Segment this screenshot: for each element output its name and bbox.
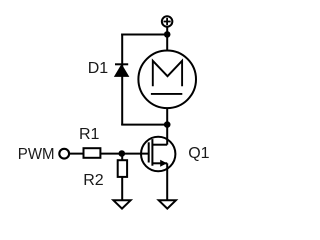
resistor R2 [118, 160, 127, 177]
transistor Q1 drain lead [152, 144, 167, 146]
motor M glyph [153, 61, 182, 86]
terminal PWM [59, 149, 69, 159]
wire: junction down to R2 [121, 154, 123, 161]
diode D1 (cathode bar) [115, 63, 128, 65]
transistor Q1 source arrow [160, 160, 167, 167]
transistor Q1 channel bar [151, 139, 153, 166]
transistor Q1 source lead [152, 162, 167, 164]
wire: source down to ground [166, 163, 168, 200]
wire: diode branch bottom horizontal [121, 124, 167, 126]
ground (below R2) [113, 200, 130, 208]
motor underline [151, 93, 182, 95]
svg-text:Q1: Q1 [188, 145, 209, 162]
svg-text:PWM: PWM [18, 146, 55, 163]
wire: top horizontal to diode branch [121, 34, 167, 36]
power supply (+) terminal [162, 16, 173, 27]
resistor R1 [84, 148, 101, 158]
motor M1 (circle) [138, 51, 196, 109]
node: drain junction [164, 121, 171, 128]
transistor Q1 gate bar [148, 142, 150, 162]
diode D1 (anode triangle) [115, 65, 128, 76]
svg-text:D1: D1 [88, 60, 109, 77]
wire: supply down to motor top [166, 27, 168, 50]
wire: R2 to ground [121, 178, 123, 201]
wire: diode branch vertical [121, 34, 123, 126]
wire: gate net from PWM terminal to MOSFET gate [70, 153, 149, 155]
wire: motor bottom through junction to MOSFET drain [166, 108, 168, 145]
transistor Q1 (body circle) [141, 137, 175, 171]
node: supply junction [164, 31, 171, 38]
svg-text:R2: R2 [83, 172, 104, 189]
node: gate junction [119, 150, 126, 157]
svg-text:R1: R1 [79, 126, 100, 143]
ground (below Q1 source) [159, 200, 176, 208]
